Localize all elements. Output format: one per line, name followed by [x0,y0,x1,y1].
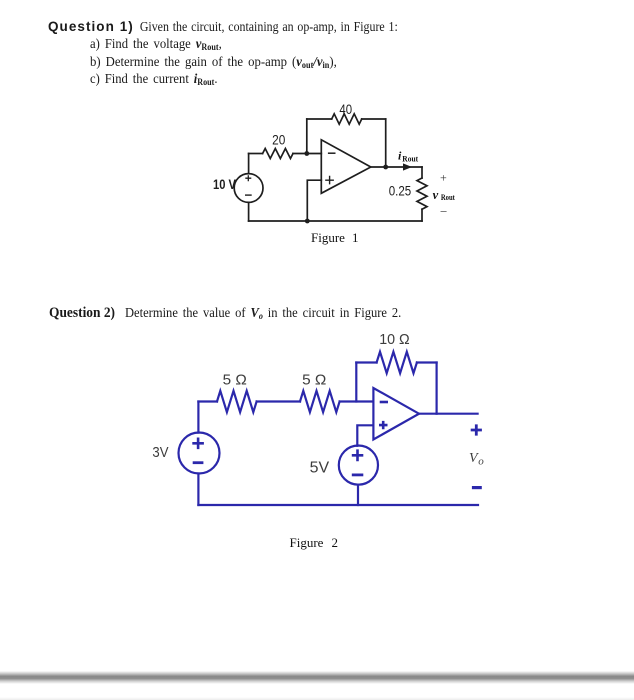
wire: right vertical upper lead [421,167,423,178]
wire: right vertical lower lead [421,209,423,221]
op-amp plus input symbol [325,176,334,185]
svg-text:Rout: Rout [441,193,455,202]
Figure 2 circuit schematic (blue) [140,325,500,525]
Question 1 item a [90,37,236,53]
wire: bottom horizontal [249,220,422,222]
label 5 ohm first [223,372,247,389]
Figure 2 caption [290,535,338,551]
wire: feedback top right segment [362,118,386,120]
label 5V [310,460,330,477]
wire: output horizontal [371,166,422,168]
wire: main horizontal left segment [249,153,263,155]
op-amp minus input symbol [328,152,336,154]
label 20 [272,133,285,148]
svg-text:−: − [440,204,447,219]
op-amp U2 triangle [373,388,419,440]
faint next-page edge [0,697,634,700]
resistor 5ohm first zigzag [217,391,257,412]
wire: 3V top lead [197,402,199,433]
op-amp minus input symbol [380,401,388,404]
resistor 10ohm zigzag [377,352,417,373]
wire: source top lead [248,154,250,174]
svg-text:5V: 5V [310,460,330,477]
page bottom separator band [0,671,634,684]
minus sign inside 3V source [193,461,204,464]
wire: feedback top left segment [356,361,376,363]
wire: between resistors [257,400,300,402]
minus sign inside source [245,194,252,196]
label 0.25 [389,184,412,199]
wire: source bottom lead [248,202,250,221]
svg-text:40: 40 [339,101,352,117]
wire: output horizontal [419,413,478,415]
wire: feedback left vertical [355,363,357,402]
label i_Rout [398,149,418,164]
svg-text:0.25: 0.25 [389,184,412,199]
Question 1 item b [90,55,361,71]
wire: to op-amp inverting input [340,400,374,402]
wire: feedback top right segment [417,361,437,363]
wire: non-inverting input stub [357,425,373,446]
resistor 40 zigzag [332,114,362,124]
Figure 1 caption [311,230,358,246]
resistor 20 zigzag [263,149,293,159]
resistor 0.25 vertical zigzag [417,178,427,209]
label plus of v_Rout [440,171,447,185]
plus sign inside source [245,175,251,181]
op-amp plus input symbol [379,421,388,429]
wire: feedback left vertical [306,119,308,154]
wire: 3V bottom lead [197,474,199,506]
op-amp U1 triangle [321,140,371,194]
plus sign inside 5V source [352,449,364,461]
Figure 1 circuit schematic (black) [200,90,470,260]
node dot at output junction [383,165,388,170]
label minus of v_Rout [440,204,447,219]
svg-text:20: 20 [272,133,285,148]
Question 1 item c [90,72,232,88]
wire: bottom horizontal [198,504,478,506]
label 40 [339,101,352,117]
svg-text:Rout: Rout [402,154,418,164]
voltage source 5V circle [339,446,378,485]
label 5 ohm second [302,372,326,389]
wire: non-inverting input stub [307,180,321,221]
node dot at inverting input junction [304,151,309,156]
Question 2 heading [49,305,434,322]
svg-text:5 Ω: 5 Ω [223,372,247,389]
svg-text:10 V: 10 V [213,176,237,192]
svg-text:3V: 3V [152,444,168,461]
minus sign inside 5V source [352,473,364,476]
Question 1 heading [48,19,444,36]
label 10 ohm [379,331,410,348]
label 10 V [213,176,237,192]
svg-text:5 Ω: 5 Ω [302,372,326,389]
wire: main wire left segment [198,400,217,402]
svg-text:+: + [440,171,447,185]
plus sign inside 3V source [192,438,204,450]
label v_Rout [433,188,456,202]
label 3V [152,444,168,461]
wire: feedback top left segment [307,118,332,120]
voltage source 3V circle [179,433,220,474]
wire: feedback right vertical [436,363,438,414]
current arrow i_Rout [403,163,412,170]
svg-text:10 Ω: 10 Ω [379,331,410,348]
resistor 5ohm second zigzag [300,391,340,412]
label output plus [471,424,482,435]
svg-text:o: o [478,456,484,468]
label output minus [472,486,482,489]
node dot at bottom junction [305,219,310,224]
voltage source V1 10V circle [234,174,263,203]
wire: resistor 20 to op-amp inverting input [293,153,321,155]
svg-text:v: v [433,188,439,202]
wire: 5V bottom lead [357,485,359,505]
label V_o [469,451,484,468]
wire: feedback right vertical [385,119,387,167]
